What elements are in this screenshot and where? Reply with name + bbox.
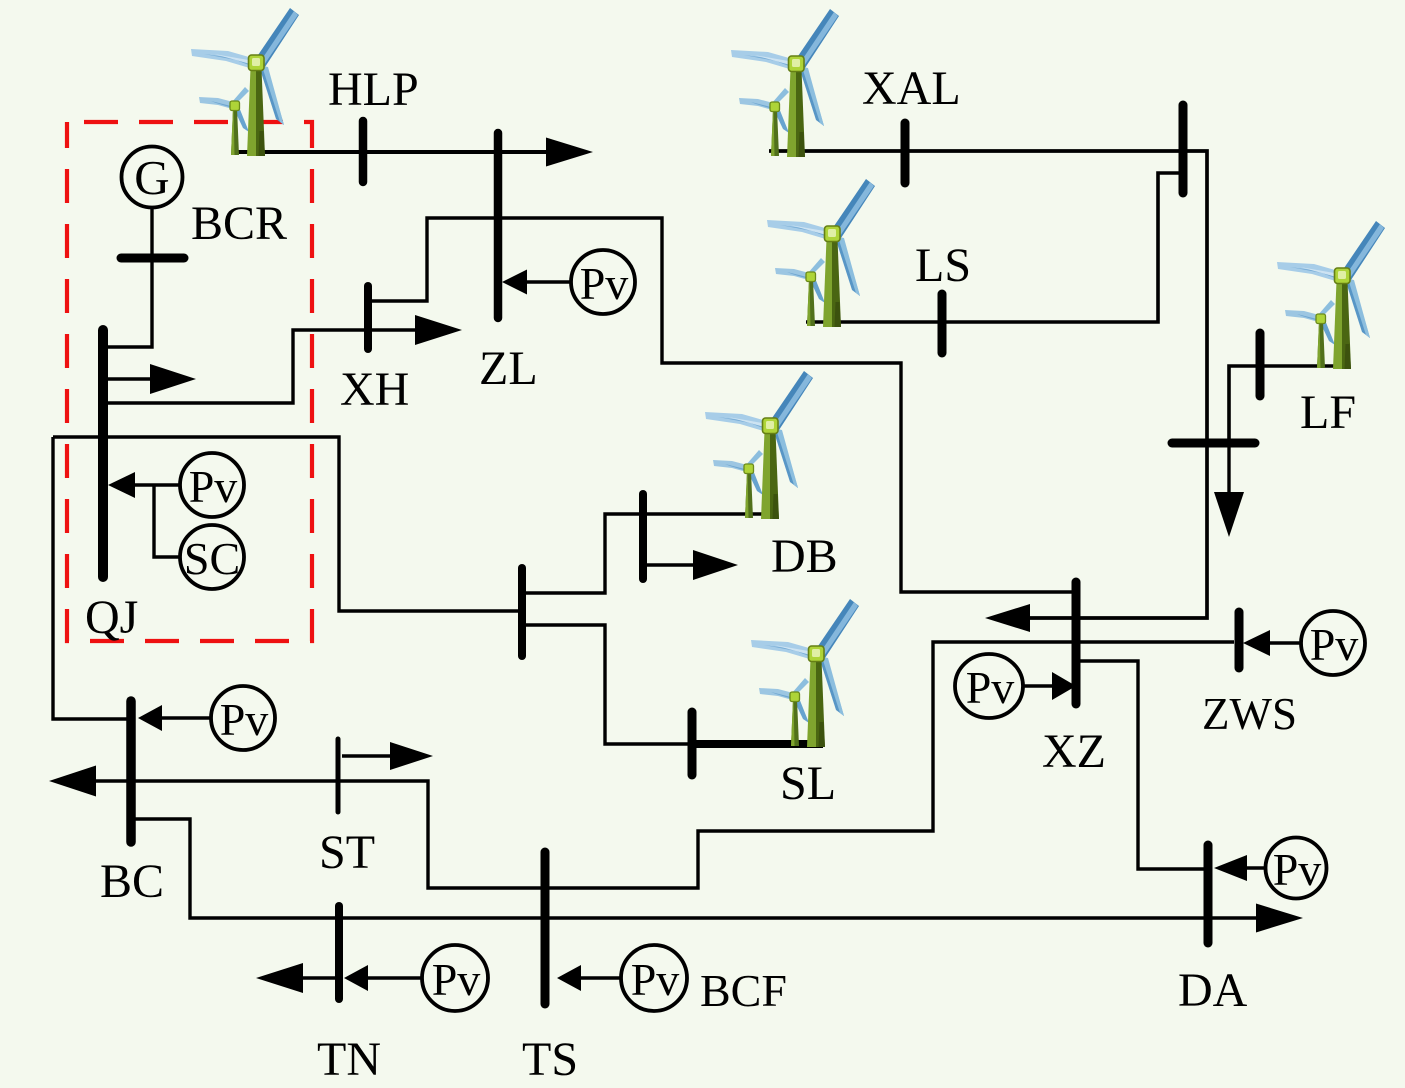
generator G circle bbox=[122, 147, 183, 208]
red dashed boundary box bbox=[67, 122, 312, 641]
wire TS Pv line bbox=[579, 976, 621, 979]
wire QJ to XH line bbox=[103, 330, 417, 403]
wire G to BCR bar bbox=[150, 207, 153, 254]
arrow TN Pv left into bus bbox=[344, 965, 368, 991]
wire XAL line and right drop to XZ bbox=[769, 151, 1207, 618]
wire LS line to right bus bbox=[806, 173, 1183, 322]
bus right (XAL-LS junction) bbox=[1179, 105, 1188, 193]
svg-text:XAL: XAL bbox=[862, 62, 961, 115]
wire TN load arrow line bbox=[302, 976, 336, 979]
svg-text:Pv: Pv bbox=[631, 954, 680, 1005]
bus XZ bbox=[1072, 582, 1081, 704]
wire ZWS Pv line bbox=[1268, 641, 1301, 644]
svg-text:Pv: Pv bbox=[580, 258, 629, 309]
wire BC Pv line bbox=[160, 716, 211, 719]
wire BC ST TS to XZ ZWS long line bbox=[95, 642, 1234, 888]
arrow TN load left bbox=[256, 963, 303, 993]
bus central bbox=[518, 568, 526, 656]
bus TS bbox=[541, 852, 550, 1004]
bus BC bbox=[126, 701, 136, 842]
bus SL bbox=[688, 712, 697, 775]
bus TN bbox=[335, 906, 343, 999]
svg-text:XH: XH bbox=[340, 363, 409, 416]
wire QJ Pv SC connector bbox=[135, 483, 180, 486]
wire QJ load arrow line bbox=[107, 377, 152, 380]
wind farm icon at SL bbox=[751, 599, 859, 747]
bus HLP bbox=[359, 121, 368, 182]
bus QJ bbox=[98, 330, 108, 577]
wire ZL to XZ staircase with XH branch bbox=[372, 218, 1072, 592]
Pv circle at QJ bbox=[180, 453, 244, 517]
arrow QJ load right bbox=[150, 364, 196, 394]
wind farm icon at HLP bbox=[191, 8, 299, 156]
bus DB bbox=[639, 494, 647, 579]
arrow TS Pv left into bus bbox=[557, 965, 581, 991]
wind farm icon at XAL bbox=[731, 9, 839, 157]
wire central bus to SL bbox=[526, 625, 690, 744]
arrow DB load right bbox=[693, 550, 738, 580]
Pv circle at DA bbox=[1266, 838, 1327, 899]
svg-text:LS: LS bbox=[915, 239, 971, 292]
Pv circle at BC bbox=[211, 686, 275, 750]
wire BC down to bottom long line to DA bbox=[135, 819, 1258, 918]
svg-text:TN: TN bbox=[317, 1033, 381, 1086]
svg-text:G: G bbox=[134, 150, 169, 205]
wind farm icon at LF bbox=[1277, 221, 1385, 369]
wire ZL Pv line bbox=[526, 280, 571, 283]
svg-text:ZWS: ZWS bbox=[1202, 689, 1297, 739]
svg-text:LF: LF bbox=[1300, 386, 1356, 439]
svg-text:Pv: Pv bbox=[220, 694, 269, 745]
bus LF bbox=[1256, 333, 1265, 396]
wind farm icon at DB bbox=[705, 371, 813, 519]
wire LF line bbox=[1229, 366, 1345, 445]
arrow DA Pv left into bus bbox=[1214, 855, 1247, 881]
svg-text:ZL: ZL bbox=[479, 342, 538, 395]
wire ST load arrow line bbox=[342, 754, 392, 757]
wire BCR bar to QJ bus bbox=[103, 262, 152, 347]
bus BCR bar bbox=[121, 254, 184, 263]
wire DA Pv line bbox=[1245, 866, 1266, 869]
arrow HLP load right bbox=[546, 138, 593, 167]
svg-text:Pv: Pv bbox=[1273, 844, 1322, 895]
arrow XH load right bbox=[415, 315, 462, 345]
bus XH bbox=[364, 286, 372, 349]
arrow ST load right bbox=[390, 742, 433, 770]
arrow ZWS Pv left into bus bbox=[1243, 630, 1270, 656]
svg-text:BCR: BCR bbox=[191, 197, 287, 250]
Pv circle at TN bbox=[422, 945, 488, 1011]
arrow ZL Pv left into bus bbox=[502, 270, 527, 295]
wire TN Pv line bbox=[366, 976, 422, 979]
svg-text:ST: ST bbox=[319, 826, 375, 879]
svg-text:Pv: Pv bbox=[1310, 619, 1359, 670]
svg-text:QJ: QJ bbox=[85, 591, 138, 644]
bus ZWS bbox=[1235, 612, 1244, 668]
Pv circle at TS bbox=[621, 945, 687, 1011]
wire LF load stub bbox=[1227, 445, 1230, 494]
arrow QJ Pv left into bus bbox=[108, 472, 135, 498]
Pv circle at ZWS bbox=[1301, 611, 1365, 675]
SL thick line to wind farm bbox=[688, 740, 823, 748]
svg-text:SC: SC bbox=[184, 533, 240, 584]
wire QJ down to BC bbox=[53, 437, 127, 719]
bus LS bbox=[938, 294, 947, 353]
bus DA bbox=[1204, 845, 1213, 943]
wind farm icon at LS bbox=[767, 179, 875, 327]
svg-text:SL: SL bbox=[780, 757, 836, 810]
arrow BC Pv left into bus bbox=[138, 705, 162, 731]
svg-text:BCF: BCF bbox=[700, 965, 787, 1016]
wire XZ to DA bbox=[1080, 661, 1204, 869]
svg-text:HLP: HLP bbox=[328, 63, 419, 116]
bus XAL bbox=[901, 123, 910, 183]
wire central bus to DB bbox=[526, 514, 777, 593]
wire QJ long line to central bus bbox=[53, 437, 518, 611]
wire HLP line bbox=[233, 150, 550, 154]
svg-text:XZ: XZ bbox=[1042, 725, 1106, 778]
arrow BC line far left bbox=[49, 766, 96, 797]
bus ST bbox=[336, 739, 341, 812]
arrow DA load right bbox=[1256, 904, 1303, 933]
Pv circle at ZL bbox=[571, 250, 635, 314]
bus LF lower bar bbox=[1172, 439, 1255, 448]
arrow XZ Pv right into bus bbox=[1052, 672, 1076, 700]
svg-text:Pv: Pv bbox=[966, 662, 1015, 713]
arrow XZ flow left bbox=[985, 604, 1030, 632]
svg-text:Pv: Pv bbox=[432, 954, 481, 1005]
svg-text:Pv: Pv bbox=[189, 461, 238, 512]
svg-text:DB: DB bbox=[771, 530, 838, 583]
Pv circle at XZ bbox=[955, 654, 1023, 718]
svg-text:TS: TS bbox=[522, 1033, 578, 1086]
arrow LF load down bbox=[1214, 492, 1244, 537]
bus ZL bbox=[494, 133, 503, 318]
wire DB load arrow line bbox=[647, 563, 695, 566]
svg-text:DA: DA bbox=[1178, 964, 1248, 1017]
wire XZ Pv line bbox=[1023, 684, 1054, 687]
SC circle at QJ bbox=[180, 525, 244, 589]
svg-text:BC: BC bbox=[100, 855, 164, 908]
